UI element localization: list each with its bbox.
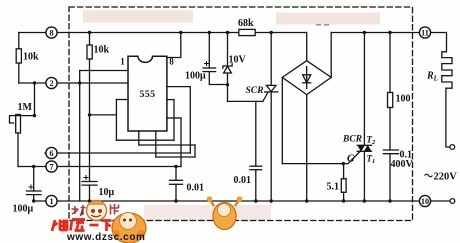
svg-text:0.01: 0.01 [234, 175, 252, 186]
capacitor 10u electrolytic [82, 181, 97, 183]
svg-text:SCR: SCR [246, 86, 264, 96]
op-amp/timer IC 555 box [128, 56, 167, 131]
wire branch under 555 (left U loop) [90, 114, 117, 116]
wei [52, 220, 67, 232]
diode zener 10V [227, 33, 229, 67]
svg-text:1: 1 [49, 197, 53, 206]
mascot right [213, 203, 236, 230]
bridge rectifier [282, 61, 331, 95]
watermark mascot group [72, 196, 243, 243]
resistor R 10k (second) [89, 33, 91, 46]
capacitor 0.01 (second) [255, 102, 257, 167]
open terminal lower [450, 199, 455, 204]
svg-text:5.1: 5.1 [327, 182, 340, 193]
wire left vertical to bottom rail [79, 71, 81, 202]
node terminal 1 [46, 195, 57, 206]
plus signs for electrolytics [29, 61, 210, 190]
potentiometer 1M body [10, 116, 35, 123]
capacitor 0.01 (first, on terminal 7 row) [175, 167, 177, 181]
wire gate node row [228, 93, 268, 102]
node terminal 10 [419, 195, 430, 206]
svg-text:2: 2 [49, 79, 53, 88]
wire top rail B (AC line to terminal 11) [331, 32, 446, 34]
mascot body center [112, 213, 146, 243]
wire 555 pin8 to rail [167, 33, 181, 58]
svg-text:7: 7 [49, 163, 53, 172]
mascot head left [87, 201, 107, 221]
node terminal 8 [46, 27, 57, 38]
wire 555 right stub lower [167, 117, 181, 119]
svg-text:555: 555 [140, 89, 156, 100]
node terminal 7 [46, 161, 57, 172]
watermark pink band top-left [83, 10, 193, 23]
svg-text:10k: 10k [94, 45, 110, 56]
diode inside bridge [306, 67, 308, 89]
wire top rail A (Vcc rail from terminal 8) [19, 32, 307, 34]
svg-text:68k: 68k [238, 18, 254, 29]
svg-text:1M: 1M [18, 102, 33, 113]
svg-text:400V: 400V [391, 159, 414, 170]
wire bridge bottom to ground rail [306, 95, 308, 201]
xia [102, 221, 112, 232]
capacitor 100u (bottom left electrolytic) [33, 167, 35, 192]
svg-text:1: 1 [120, 57, 125, 67]
value labels [13, 18, 458, 215]
node terminal 2 [46, 77, 57, 88]
svg-text:6: 6 [49, 149, 53, 158]
watermark pink band top-right [276, 13, 380, 25]
wire 555 right stub to node column [167, 86, 190, 88]
resistor 68k [239, 29, 255, 35]
watermark character pian [111, 204, 119, 215]
capacitor 100u (near 555 pin8) [208, 33, 210, 69]
wire bottom rail (terminal 1 / terminal 10) [34, 200, 450, 202]
resistor R 10k (left) [18, 33, 20, 49]
watermark character zhao [72, 205, 86, 216]
wire terminal 6 row [45, 152, 190, 154]
node terminal 6 [46, 147, 57, 158]
wire 10k to 10u cap [89, 59, 91, 182]
semiconductor labels [246, 71, 438, 166]
load resistor RL (heater meander) [442, 33, 452, 148]
svg-text:11: 11 [421, 29, 429, 38]
wire rail B drop to bridge right [330, 33, 332, 78]
svg-text:100μ: 100μ [13, 204, 34, 215]
svg-text:220V: 220V [434, 172, 458, 183]
potentiometer 1M branch [34, 83, 36, 116]
svg-text:0.01: 0.01 [187, 183, 205, 194]
thyristor SCR [270, 33, 272, 86]
ku [71, 220, 86, 231]
svg-text:10k: 10k [23, 52, 39, 63]
svg-text:BCR: BCR [342, 135, 362, 145]
triac BCR [363, 33, 365, 146]
wire terminal 2 row [19, 82, 128, 84]
open terminal upper [450, 145, 455, 150]
capacitor 0.1 400V [383, 149, 398, 151]
watermark pink band bottom [144, 205, 271, 221]
yi [90, 224, 99, 227]
svg-text:10V: 10V [229, 55, 247, 66]
svg-text:www.dzsc.com: www.dzsc.com [66, 232, 146, 243]
wire 555 pin stub left upper [80, 70, 128, 72]
watermark text weiku yixia (stroke built glyphs) [52, 220, 112, 232]
resistor 5.1 [343, 164, 345, 179]
svg-text:8: 8 [49, 29, 53, 38]
faint marks in pink band [316, 24, 321, 26]
svg-text:8: 8 [169, 57, 174, 67]
wire bridge left to triac gate row [281, 77, 283, 163]
svg-text:100μ: 100μ [185, 71, 206, 82]
wire 555 bottom pin maze [138, 131, 140, 145]
svg-text:10: 10 [421, 197, 429, 206]
svg-text:G: G [347, 154, 355, 165]
resistor 100 [389, 33, 391, 93]
terminal circles [46, 27, 431, 207]
wire rail A drop to bridge top [306, 33, 308, 61]
svg-text:10μ: 10μ [99, 187, 115, 198]
node terminal 11 [419, 27, 430, 38]
wire terminal 7 row [18, 166, 181, 168]
~ of 220V [425, 174, 433, 177]
dashed module border [69, 7, 413, 221]
svg-text:100: 100 [396, 94, 411, 105]
